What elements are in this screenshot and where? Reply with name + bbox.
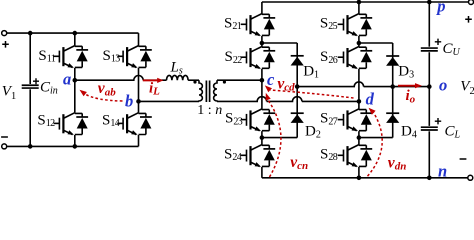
wire clamp top B — [359, 42, 393, 44]
transistor S26 — [320, 47, 372, 69]
transistor S14 — [102, 112, 152, 134]
wire leg1 stub bottom — [74, 135, 76, 146]
junction cap branch bottom rail — [427, 176, 432, 181]
output polarity + — [465, 16, 472, 23]
wire neutral o (hops legB) — [297, 82, 429, 87]
current arrow i_o — [398, 83, 422, 105]
svg-text:1 :: 1 : — [197, 103, 211, 118]
diode D2 — [291, 113, 321, 140]
wire inductor to transformer — [188, 79, 199, 81]
junction leg1 top rail — [73, 31, 78, 36]
wire right bridge top rail — [262, 1, 469, 3]
svg-text:n: n — [438, 162, 447, 181]
wire clamp top A — [262, 42, 297, 44]
voltage arrow v_ab — [80, 80, 123, 101]
capacitor Cin — [22, 33, 58, 146]
output polarity - — [460, 158, 467, 160]
transistor S11 — [38, 46, 88, 68]
voltage arrow v_cd — [265, 75, 354, 98]
node o — [427, 75, 447, 94]
terminal n — [438, 162, 473, 181]
junction legB bottom rail — [357, 176, 362, 181]
junction legB clamp bottom — [357, 135, 362, 140]
wire capacitor branch middle — [428, 52, 430, 126]
wire legB stub top — [358, 2, 360, 14]
voltage arrow v_dn — [368, 108, 407, 176]
transformer T1 secondary winding — [214, 80, 217, 101]
junction legB top rail — [357, 0, 362, 4]
svg-text:b: b — [125, 92, 133, 111]
junction leg1 bottom rail — [73, 144, 78, 149]
wire capacitor branch bottom — [428, 131, 430, 178]
input terminal - (negative) — [1, 137, 8, 149]
node b — [125, 92, 141, 111]
wire clamp bottom B — [359, 137, 393, 139]
transformer primary polarity dot — [193, 80, 196, 83]
wire node b to transformer primary — [139, 100, 200, 102]
svg-text:d: d — [366, 90, 375, 109]
junction Cin bottom — [28, 144, 33, 149]
junction legA clamp bottom — [260, 135, 265, 140]
wire leg2 mid — [138, 68, 140, 113]
wire clamp branch A vertical — [296, 43, 298, 138]
junction legB clamp top — [357, 41, 362, 46]
transistor S22 — [225, 47, 276, 69]
junction cap branch top rail — [427, 0, 432, 4]
svg-text:a: a — [63, 70, 71, 89]
transistor S12 — [37, 112, 88, 134]
junction clamp B neutral — [390, 84, 395, 89]
terminal p — [435, 0, 473, 16]
capacitor CL — [421, 118, 461, 140]
diode D3 — [386, 56, 414, 80]
wire legA stub top — [261, 2, 263, 14]
voltage arrow v_cn — [266, 93, 308, 177]
transformer T1 core — [206, 81, 209, 103]
wire legA S21-S22 — [261, 36, 263, 47]
transistor S28 — [320, 145, 372, 167]
wire leg2 stub top — [138, 33, 140, 46]
transistor S25 — [320, 14, 372, 36]
wire capacitor branch top — [428, 2, 430, 47]
wire node a to inductor (hops leg2) — [75, 76, 167, 81]
node a — [63, 70, 77, 89]
transformer secondary polarity dot — [223, 80, 226, 83]
transistor S27 — [320, 109, 372, 131]
wire legA S23-S24 — [261, 131, 263, 144]
transistor S23 — [225, 109, 275, 131]
svg-text:c: c — [267, 70, 275, 89]
wire transformer secondary top to node c — [217, 79, 262, 81]
capacitor CU — [421, 39, 461, 58]
input terminal + (positive) — [2, 31, 9, 48]
node c — [260, 70, 275, 89]
current arrow i_L — [143, 78, 164, 98]
wire left bridge bottom rail — [7, 145, 139, 147]
output V2 label — [460, 78, 474, 97]
wire legB S26-S27 — [358, 69, 360, 109]
transformer T1 primary winding — [199, 80, 202, 101]
wire transformer secondary bottom to node d (hops legA and clamp branch A) — [217, 97, 359, 102]
transformer ratio label 1:n — [197, 103, 222, 118]
wire legA S22-S23 — [261, 69, 263, 109]
junction Cin top — [28, 31, 33, 36]
inductor Ls — [167, 60, 189, 81]
wire legB stub bottom — [358, 167, 360, 178]
wire leg1 mid — [74, 68, 76, 113]
svg-text:o: o — [439, 75, 447, 94]
wire right bridge bottom rail — [262, 177, 468, 179]
wire legB S25-S26 — [358, 36, 360, 47]
svg-text:p: p — [435, 0, 445, 16]
source V1 label — [2, 84, 16, 103]
junction clamp A neutral — [295, 84, 300, 89]
diode D4 — [386, 113, 417, 140]
diode D1 — [291, 56, 319, 81]
junction legA clamp top — [260, 41, 265, 46]
wire legB S27-S28 — [358, 131, 360, 144]
node d — [357, 90, 375, 109]
wire clamp branch B vertical — [392, 43, 394, 138]
transistor S13 — [103, 46, 152, 68]
svg-text:n: n — [215, 103, 222, 118]
wire leg2 stub bottom — [138, 135, 140, 146]
wire leg1 stub top — [74, 33, 76, 46]
wire left bridge top rail — [7, 32, 139, 34]
wire clamp bottom A — [262, 137, 297, 139]
transistor S24 — [224, 145, 275, 167]
transistor S21 — [224, 14, 275, 36]
wire legA stub bottom — [261, 167, 263, 178]
